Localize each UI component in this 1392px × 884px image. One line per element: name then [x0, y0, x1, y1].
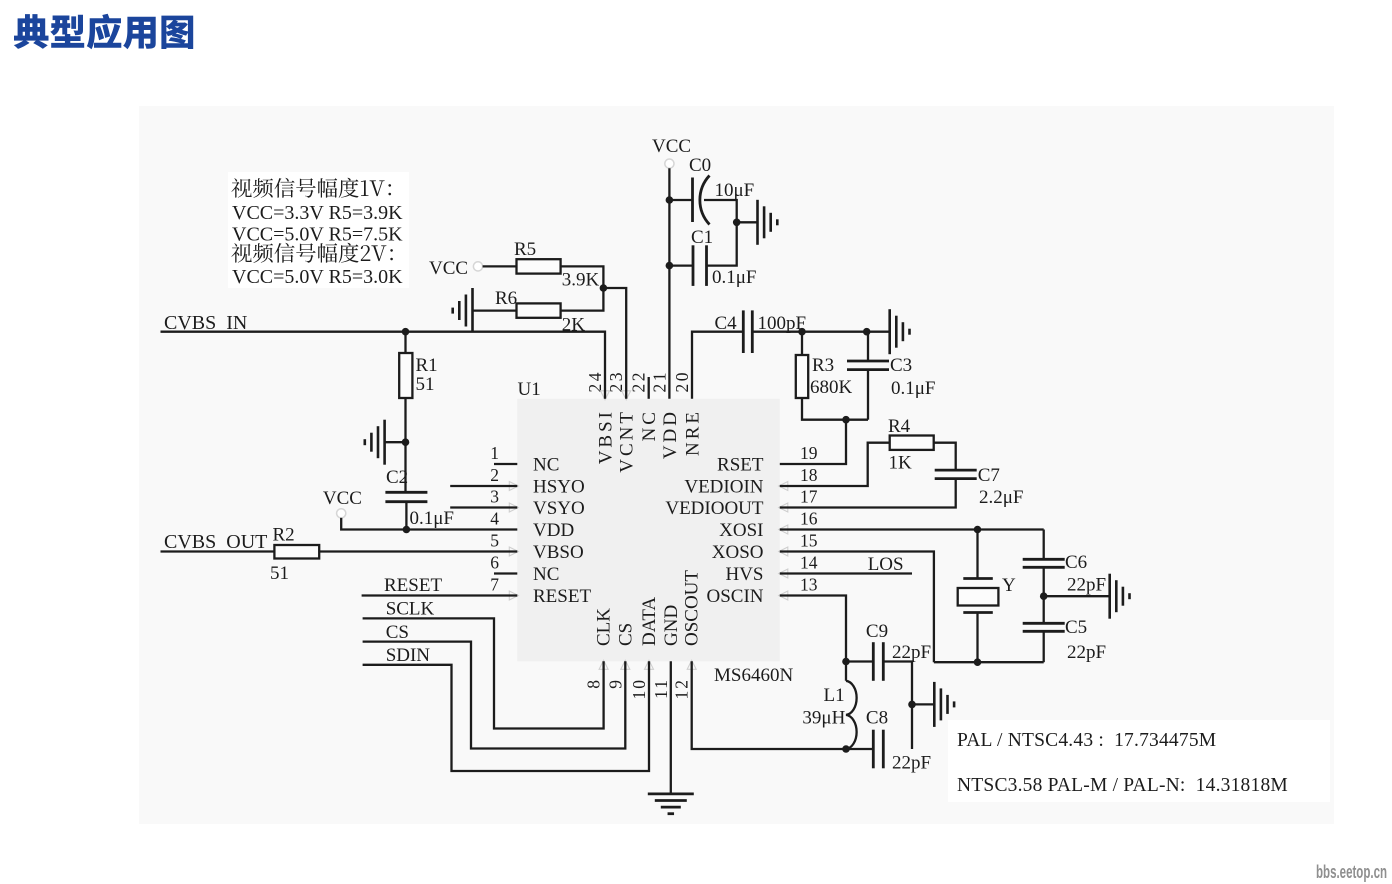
svg-text:OSCOUT: OSCOUT — [682, 570, 703, 646]
svg-text:NC: NC — [533, 455, 559, 476]
svg-text:C0: C0 — [689, 155, 711, 176]
svg-text:PAL / NTSC4.43 : 17.734475M: PAL / NTSC4.43 : 17.734475M — [957, 730, 1216, 751]
svg-text:XOSI: XOSI — [719, 520, 763, 541]
resistor R5 — [517, 259, 561, 273]
wire R6 left to ground bar — [473, 309, 517, 311]
IC bottom pin names — [594, 570, 703, 646]
top pin numbers 24-20 — [585, 370, 692, 393]
crystal Y bottom electrode — [963, 611, 993, 614]
svg-text:bbs.eetop.cn: bbs.eetop.cn — [1316, 862, 1387, 882]
wire C7 to pin 17 VEDIOOUT — [780, 479, 956, 508]
svg-text:2K: 2K — [562, 315, 586, 336]
svg-text:C3: C3 — [890, 355, 912, 376]
ground at C5/C6 — [1108, 574, 1111, 619]
svg-text:23: 23 — [606, 370, 626, 393]
wire CVBS IN to pin 24 — [161, 332, 606, 399]
svg-text:21: 21 — [649, 370, 669, 393]
wire R4 to C7 — [934, 443, 956, 470]
svg-text:CS: CS — [386, 622, 409, 643]
wire VCC to pin 4 VDD — [341, 518, 517, 530]
IC top pin names — [596, 409, 704, 473]
capacitor C4 — [742, 310, 745, 353]
node VCC/C0 — [666, 196, 674, 204]
annotation line1 视频信号幅度1V： — [231, 178, 391, 198]
svg-text:VCC=5.0V R5=3.0K: VCC=5.0V R5=3.0K — [232, 266, 403, 288]
wire pin 14 HVS — [780, 572, 912, 574]
wire pin 18 VEDIOIN to R4 — [780, 443, 890, 486]
node crystal bottom — [974, 658, 982, 666]
svg-text:NC: NC — [639, 409, 660, 441]
wire pin 12 OSCOUT to C8 — [692, 661, 846, 749]
node R1 ground junction — [402, 438, 410, 446]
svg-text:11: 11 — [651, 678, 671, 699]
svg-text:VSYO: VSYO — [533, 498, 585, 519]
wire C3 bottom — [867, 370, 869, 420]
svg-text:CVBS OUT: CVBS OUT — [164, 531, 267, 553]
svg-text:R6: R6 — [495, 288, 517, 309]
svg-text:HVS: HVS — [725, 564, 763, 585]
IC U1 body — [517, 399, 780, 662]
wire SCLK to pin 8 CLK — [363, 618, 604, 728]
svg-text:51: 51 — [416, 374, 435, 395]
wire crystal top — [976, 530, 978, 579]
svg-text:22pF: 22pF — [892, 753, 931, 774]
svg-text:C4: C4 — [715, 313, 738, 334]
pin 6 stub NC — [494, 572, 517, 574]
wire crystal bottom net — [934, 661, 1044, 663]
svg-text:VEDIOIN: VEDIOIN — [684, 477, 763, 498]
wire RSET pin 19 — [780, 420, 846, 464]
ground at R1/C2 — [383, 420, 386, 465]
right pin numbers 19-13 — [800, 443, 818, 595]
svg-text:24: 24 — [585, 370, 605, 393]
svg-text:XOSO: XOSO — [712, 542, 764, 563]
svg-text:680K: 680K — [810, 377, 853, 398]
wire C6 branch down — [1043, 530, 1045, 560]
node L1/C8/OSCOUT — [842, 745, 850, 753]
svg-text:VBSO: VBSO — [533, 542, 584, 563]
wire C0C1 junction to ground — [737, 221, 758, 223]
svg-text:U1: U1 — [518, 379, 541, 400]
svg-text:10: 10 — [629, 678, 649, 700]
svg-text:0.1μF: 0.1μF — [410, 508, 455, 529]
ground at C0/C1 — [756, 200, 759, 245]
inductor L1 — [846, 681, 857, 749]
svg-text:16: 16 — [800, 509, 818, 529]
wire junction to pin 23 VCNT — [603, 288, 626, 399]
capacitor C1 — [692, 245, 695, 286]
wire to C8 — [846, 748, 873, 750]
node OSCIN/C9/L1 — [842, 658, 850, 666]
svg-text:R5: R5 — [514, 239, 536, 260]
svg-text:C2: C2 — [386, 467, 408, 488]
wire C3 top — [867, 332, 869, 361]
wire to ground at C5/C6 — [1044, 595, 1110, 597]
wire pin 20 NRE up to C4 — [692, 332, 743, 399]
node C2 / pin4 VDD — [403, 526, 411, 534]
node C3 top — [863, 328, 871, 336]
svg-text:13: 13 — [800, 575, 818, 595]
svg-text:18: 18 — [800, 465, 818, 485]
svg-text:R3: R3 — [812, 355, 834, 376]
wire C1 right up to junction — [707, 222, 737, 265]
svg-text:C7: C7 — [978, 465, 1000, 486]
svg-text:2: 2 — [490, 465, 499, 485]
wire R3 bottom to node — [802, 398, 868, 420]
svg-text:VDD: VDD — [660, 409, 681, 459]
svg-text:RESET: RESET — [384, 575, 442, 596]
capacitor C0 left plate — [691, 178, 694, 223]
svg-text:NRE: NRE — [683, 409, 704, 456]
VCC terminal top — [665, 159, 674, 168]
svg-text:3: 3 — [490, 487, 499, 507]
svg-text:5: 5 — [490, 531, 499, 551]
crystal Y top electrode — [963, 577, 993, 580]
resistor R4 — [890, 436, 934, 450]
svg-text:4: 4 — [490, 509, 499, 529]
svg-text:19: 19 — [800, 443, 818, 463]
svg-text:14: 14 — [800, 553, 818, 573]
pin 22 NC stub — [648, 377, 650, 399]
note background — [948, 720, 1330, 802]
wire CS to pin 9 — [363, 642, 626, 749]
svg-text:VCC: VCC — [652, 136, 691, 157]
bottom pin numbers 8-12 — [584, 678, 692, 700]
svg-text:39μH: 39μH — [802, 708, 845, 729]
svg-text:LOS: LOS — [868, 554, 904, 575]
svg-text:0.1μF: 0.1μF — [891, 378, 936, 399]
svg-text:1: 1 — [490, 443, 499, 463]
svg-text:R2: R2 — [273, 525, 295, 546]
annotation line4 视频信号幅度2V： — [231, 243, 393, 263]
wire C4 to ground node — [752, 331, 889, 333]
svg-text:CLK: CLK — [594, 608, 615, 646]
svg-text:R1: R1 — [416, 355, 438, 376]
svg-text:C9: C9 — [866, 621, 888, 642]
wire R1 bottom to C2 — [404, 398, 406, 492]
wire R3 top — [801, 332, 803, 355]
ground main GND — [648, 793, 694, 796]
svg-text:15: 15 — [800, 531, 818, 551]
pin 2 wire HSYO — [450, 485, 517, 487]
wire to C9 — [846, 660, 873, 662]
svg-text:VEDIOOUT: VEDIOOUT — [665, 498, 764, 519]
capacitor C8 — [872, 730, 875, 769]
svg-text:12: 12 — [672, 678, 692, 700]
wire to C0 — [669, 199, 692, 201]
svg-text:C6: C6 — [1065, 552, 1087, 573]
svg-text:VCNT: VCNT — [617, 409, 638, 473]
wire C0 right — [704, 200, 737, 222]
svg-text:VCC: VCC — [323, 488, 362, 509]
svg-text:NTSC3.58 PAL-M / PAL-N: 14.31: NTSC3.58 PAL-M / PAL-N: 14.31818M — [957, 775, 1288, 796]
svg-text:HSYO: HSYO — [533, 477, 585, 498]
wire VCC down to pin 21 VDD — [668, 168, 670, 399]
node VCC/C1 — [666, 262, 674, 270]
svg-text:22: 22 — [629, 370, 649, 393]
wire R1 top — [404, 332, 406, 353]
svg-text:DATA: DATA — [639, 597, 660, 646]
VCC terminal at R5 — [473, 262, 482, 271]
svg-text:9: 9 — [605, 678, 625, 689]
svg-text:0.1μF: 0.1μF — [712, 267, 757, 288]
svg-text:C8: C8 — [866, 708, 888, 729]
IC right pin names — [665, 455, 764, 608]
wire crystal bottom — [976, 613, 978, 663]
wire pin 16 XOSI — [780, 528, 1044, 530]
node C0/C1 ground junction — [733, 219, 741, 227]
schematic panel — [139, 106, 1334, 824]
capacitor C3 — [847, 360, 889, 363]
wire SDIN to pin 10 DATA — [363, 661, 649, 771]
svg-text:MS6460N: MS6460N — [714, 665, 793, 686]
wire C9 right down — [883, 662, 912, 750]
capacitor C2 — [385, 491, 427, 494]
svg-text:VCC=3.3V R5=3.9K: VCC=3.3V R5=3.9K — [232, 202, 403, 224]
ground at C8/C9 — [933, 682, 936, 727]
wire to ground at C8/C9 — [912, 703, 934, 705]
node CVBS IN / R1 — [402, 328, 410, 336]
svg-text:SCLK: SCLK — [386, 599, 435, 620]
svg-text:2.2μF: 2.2μF — [979, 487, 1024, 508]
wire VCC to R5 — [483, 265, 517, 267]
svg-text:R4: R4 — [888, 416, 911, 437]
annotation background — [228, 172, 409, 288]
IC left pin names — [533, 455, 591, 608]
wire RESET to pin 7 — [362, 594, 518, 596]
ground at C3 — [888, 309, 891, 354]
wire to C1 — [669, 264, 693, 266]
ground at R6 — [453, 288, 473, 332]
svg-text:C5: C5 — [1065, 617, 1087, 638]
title 典型应用图 — [14, 14, 193, 50]
resistor R2 — [274, 545, 319, 559]
svg-text:10μF: 10μF — [715, 180, 755, 201]
left pin numbers 1-7 — [490, 443, 499, 595]
node R3/C3/RSET — [842, 416, 850, 424]
wire to ground at R1/C2 — [385, 441, 406, 443]
wire C2 bottom — [405, 502, 407, 530]
capacitor C7 — [935, 469, 977, 472]
svg-text:1K: 1K — [889, 453, 913, 474]
svg-text:6: 6 — [490, 553, 499, 573]
wire R2 to pin 5 VBSO — [319, 550, 517, 552]
svg-text:51: 51 — [270, 563, 289, 584]
wire pin 13 OSCIN — [780, 596, 846, 681]
svg-text:VCC=5.0V R5=7.5K: VCC=5.0V R5=7.5K — [232, 224, 403, 246]
node C8/C9 ground junction — [908, 701, 916, 709]
svg-text:Y: Y — [1002, 575, 1016, 596]
svg-text:22pF: 22pF — [892, 642, 931, 663]
capacitor C5 — [1023, 622, 1065, 625]
svg-text:17: 17 — [800, 487, 818, 507]
svg-text:3.9K: 3.9K — [562, 270, 600, 291]
svg-text:GND: GND — [661, 605, 682, 646]
wire pin 15 XOSO — [780, 552, 934, 663]
svg-text:7: 7 — [490, 575, 499, 595]
node R5/R6/pin23 — [600, 284, 608, 292]
pin direction arrows — [509, 391, 788, 670]
wire CVBS OUT to R2 — [161, 550, 275, 552]
pin 3 wire VSYO — [450, 506, 517, 508]
capacitor C9 — [872, 642, 875, 681]
resistor R3 — [796, 355, 808, 398]
svg-text:NC: NC — [533, 564, 559, 585]
svg-text:22pF: 22pF — [1067, 575, 1106, 596]
svg-text:OSCIN: OSCIN — [706, 586, 763, 607]
svg-text:L1: L1 — [824, 685, 845, 706]
svg-text:SDIN: SDIN — [386, 645, 431, 666]
wire R5 to junction — [561, 266, 604, 288]
resistor R1 — [399, 353, 412, 398]
VCC terminal at pin 4 — [337, 509, 346, 518]
capacitor C0 curved plate — [700, 176, 710, 225]
wire C6 to C5 — [1043, 567, 1045, 623]
svg-text:20: 20 — [672, 370, 692, 393]
svg-text:VCC: VCC — [429, 258, 468, 279]
svg-text:C1: C1 — [691, 227, 713, 248]
pin 1 stub NC — [494, 463, 517, 465]
svg-text:8: 8 — [584, 678, 604, 689]
wire C5 bottom — [1043, 631, 1045, 662]
svg-text:22pF: 22pF — [1067, 642, 1106, 663]
svg-text:VDD: VDD — [533, 520, 574, 541]
node C6/C5 ground junction — [1040, 592, 1048, 600]
wire junction down to R6 — [561, 288, 604, 311]
resistor R6 — [517, 303, 561, 317]
node XOSI/crystal — [974, 526, 982, 534]
node C4/R3 — [798, 328, 806, 336]
wire pin 11 GND down — [670, 661, 672, 794]
svg-text:RSET: RSET — [717, 455, 764, 476]
svg-text:CS: CS — [615, 623, 636, 646]
svg-text:VBSI: VBSI — [596, 409, 617, 464]
capacitor C6 — [1023, 558, 1065, 561]
crystal Y body — [958, 588, 999, 606]
svg-text:RESET: RESET — [533, 586, 591, 607]
